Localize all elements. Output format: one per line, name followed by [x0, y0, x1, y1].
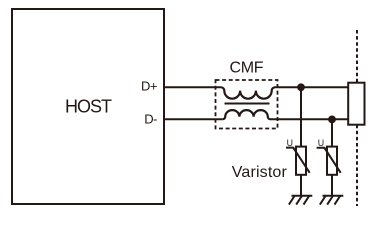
svg-text:D+: D+ — [141, 79, 158, 94]
varistor 1 body — [296, 147, 306, 175]
connector box — [348, 83, 364, 125]
CMF bottom winding L2 — [223, 110, 271, 119]
junction dot on D- — [328, 116, 336, 124]
varistor 2 body — [327, 147, 337, 175]
wire from D+ junction down to varistor 1 — [300, 87, 302, 147]
wire D+ left segment — [164, 86, 221, 88]
wire varistor 1 to ground — [300, 175, 302, 196]
wire varistor 2 to ground — [331, 175, 333, 196]
ground 1 — [289, 196, 312, 205]
ground 2 — [320, 196, 343, 205]
svg-text:HOST: HOST — [65, 96, 112, 116]
junction dot on D+ — [297, 83, 305, 91]
varistor 1 diagonal stroke — [286, 148, 310, 173]
dashed line above connector — [356, 30, 358, 83]
wire D- right segment — [270, 118, 348, 120]
wire D- left segment — [164, 118, 223, 120]
svg-text:Varistor: Varistor — [232, 164, 288, 181]
svg-text:D-: D- — [144, 111, 157, 126]
wire from D- junction down to varistor 2 — [331, 119, 333, 147]
svg-text:U: U — [287, 138, 293, 148]
CMF core line — [225, 103, 270, 105]
wire D+ right segment — [275, 86, 349, 88]
HOST box — [12, 9, 164, 204]
CMF dashed box — [216, 80, 278, 129]
dashed line below connector — [356, 125, 358, 206]
varistor 2 diagonal stroke — [317, 148, 341, 173]
CMF top winding L1 — [221, 87, 275, 98]
svg-text:U: U — [318, 138, 324, 148]
svg-text:CMF: CMF — [230, 59, 264, 76]
